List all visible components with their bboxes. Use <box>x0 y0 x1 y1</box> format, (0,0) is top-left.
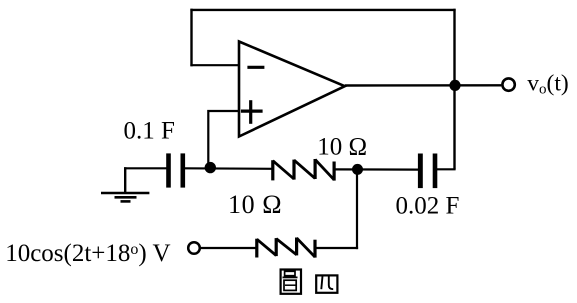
wire node B down <box>356 169 358 249</box>
wire noninverting input <box>208 111 239 168</box>
wire ground to C1 <box>124 167 167 169</box>
capacitor C2 0.02F <box>418 154 437 189</box>
wire inverting input <box>190 64 239 66</box>
wire C1 to R1 <box>185 167 274 170</box>
ground <box>101 167 149 201</box>
wire feedback left vertical <box>190 9 192 67</box>
wire feedback top <box>190 9 455 11</box>
svg-text:0.02 F: 0.02 F <box>396 193 460 220</box>
wire right vertical <box>453 9 455 170</box>
resistor R1 10ohm <box>273 159 334 181</box>
label figure caption glyph four <box>316 275 337 292</box>
node A <box>205 162 216 173</box>
node output junction <box>449 80 460 91</box>
terminal source circle <box>188 242 200 254</box>
wire output <box>345 84 502 87</box>
svg-text:10 Ω: 10 Ω <box>317 134 367 161</box>
wire source to R2 <box>201 247 257 249</box>
label figure caption glyph tu <box>281 270 301 294</box>
terminal vo(t) <box>502 78 514 90</box>
wire R1 to C2 <box>334 168 418 170</box>
wire C2 to right vertical <box>437 168 456 170</box>
node B <box>352 164 363 175</box>
svg-text:10 Ω: 10 Ω <box>228 190 282 219</box>
svg-text:10cos(2t+18o) V: 10cos(2t+18o) V <box>5 240 170 267</box>
resistor R2 source <box>257 238 315 258</box>
svg-text:vo(t): vo(t) <box>527 71 568 98</box>
op-amp U1 <box>239 42 345 137</box>
capacitor C1 0.1F <box>166 153 185 187</box>
svg-text:0.1 F: 0.1 F <box>124 118 175 145</box>
wire bottom right segment <box>315 247 358 249</box>
